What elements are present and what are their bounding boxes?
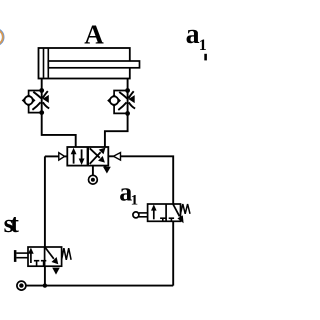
svg-text:a: a [186,19,200,50]
svg-text:1: 1 [131,192,139,208]
svg-text:st: st [4,209,20,238]
svg-text:1: 1 [199,37,207,54]
svg-text:A: A [84,20,104,50]
